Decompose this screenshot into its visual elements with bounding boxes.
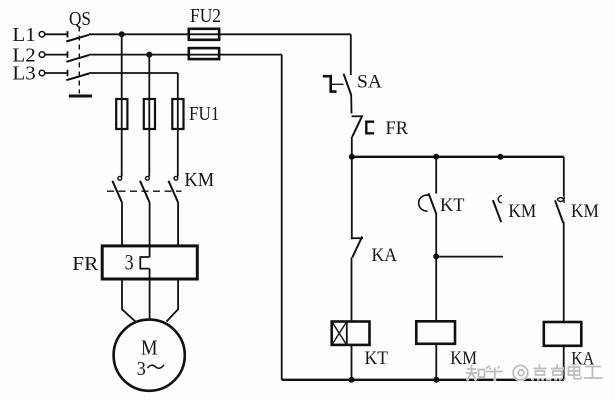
wire FR contact to rail bbox=[351, 137, 353, 157]
fuse FU2 bbox=[189, 5, 221, 59]
node junction bottom KM bbox=[433, 377, 439, 383]
wire L2 drop to FU1 bbox=[148, 55, 150, 99]
wire FR box to motor bbox=[122, 279, 178, 322]
node junction L2 bbox=[146, 52, 152, 58]
thermal relay FR NC contact bbox=[352, 115, 409, 139]
wire KM contact 2 to KA coil bbox=[563, 222, 565, 322]
wire FU1 to KM contacts bbox=[122, 129, 178, 177]
node L3 terminal bbox=[12, 63, 44, 85]
wire L2 drop to bottom rail bbox=[281, 55, 283, 380]
svg-text:M: M bbox=[141, 336, 158, 360]
fuse FU1 bbox=[116, 99, 219, 129]
svg-text:3: 3 bbox=[137, 358, 146, 380]
switch QS bbox=[45, 8, 92, 96]
wire rail corner to KM contact 2 bbox=[563, 157, 565, 197]
wire L2 from QS to FU2 and right corner bbox=[89, 54, 282, 56]
svg-text:FU2: FU2 bbox=[190, 5, 221, 27]
relay contact KM auxiliary 2 bbox=[555, 196, 599, 223]
wire L1 drop to FU1 bbox=[121, 34, 123, 99]
node junction rail right bbox=[497, 154, 503, 160]
relay contact KM auxiliary 1 bbox=[493, 196, 536, 223]
wire L3 drop to FU1 bbox=[177, 73, 179, 99]
wire KT coil to bottom rail bbox=[351, 345, 353, 380]
svg-text:L3: L3 bbox=[12, 63, 35, 85]
node L2 terminal bbox=[12, 44, 44, 66]
svg-text:KT: KT bbox=[440, 196, 464, 216]
switch SA bbox=[323, 72, 383, 95]
wire L1 drop to SA bbox=[350, 34, 352, 75]
node junction bottom KT bbox=[349, 377, 355, 383]
wire KA coil to bottom rail bbox=[563, 346, 565, 380]
motor M bbox=[114, 320, 185, 391]
wire L1 from QS to FU2 and right corner bbox=[89, 33, 351, 35]
svg-text:SA: SA bbox=[357, 72, 383, 92]
svg-text:3: 3 bbox=[125, 250, 134, 275]
thermal relay FR element box bbox=[72, 246, 197, 279]
contactor KM main contacts bbox=[107, 169, 214, 203]
wire rail to KT contact bbox=[435, 157, 437, 194]
coil KA bbox=[544, 322, 595, 370]
coil KT (time relay, delay box) bbox=[332, 322, 388, 369]
wire rail to KA contact bbox=[351, 157, 353, 239]
wire junction to KM contact branch bbox=[436, 256, 503, 258]
svg-text:KA: KA bbox=[372, 246, 398, 266]
watermark zhihu bbox=[466, 364, 603, 381]
wire control top rail bbox=[352, 156, 564, 158]
heater element jog bbox=[140, 246, 149, 279]
relay contact KA bbox=[352, 237, 398, 267]
time relay contact KT (delayed close) bbox=[419, 193, 465, 216]
wire KM to FR box bbox=[122, 203, 178, 246]
svg-text:KT: KT bbox=[365, 349, 389, 369]
svg-text:KM: KM bbox=[450, 349, 477, 369]
svg-text:FU1: FU1 bbox=[189, 103, 220, 125]
node junction KT branch bbox=[433, 253, 439, 259]
node L1 terminal bbox=[12, 24, 44, 46]
svg-text:L1: L1 bbox=[12, 24, 35, 46]
wire L3 from QS to drop bbox=[89, 72, 178, 74]
wire KA contact to KT coil bbox=[351, 258, 353, 322]
wire KM coil to bottom rail bbox=[435, 344, 437, 380]
coil KM bbox=[416, 321, 477, 369]
node junction rail left bbox=[349, 154, 355, 160]
node junction L1 bbox=[119, 31, 125, 37]
wire control bottom rail bbox=[282, 379, 564, 381]
wire junction to KM coil bbox=[435, 256, 437, 321]
svg-text:KM: KM bbox=[184, 169, 214, 191]
svg-text:FR: FR bbox=[386, 119, 409, 139]
wire SA to FR contact bbox=[350, 95, 352, 114]
wire KT contact to junction bbox=[435, 214, 437, 256]
svg-text:KM: KM bbox=[508, 202, 536, 222]
node junction rail mid bbox=[433, 154, 439, 160]
svg-text:FR: FR bbox=[72, 253, 99, 275]
svg-text:KM: KM bbox=[571, 202, 599, 222]
